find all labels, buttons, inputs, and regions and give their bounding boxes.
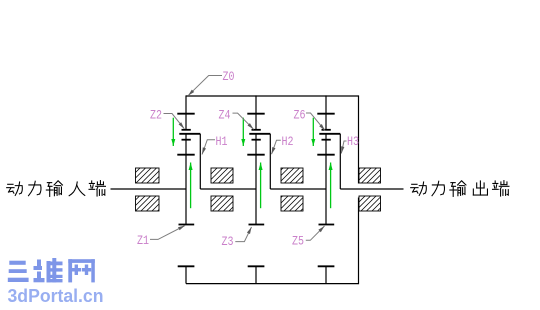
stage 3 sun shaft lower segment [325, 134, 327, 225]
bottom frame line [186, 283, 359, 285]
svg-text:Z2: Z2 [150, 108, 162, 123]
svg-text:H2: H2 [282, 134, 294, 149]
fixed gear stub stage 3 [325, 266, 327, 283]
leader line Z4 [233, 113, 254, 129]
planet gear line of carrier H1 [179, 133, 200, 135]
carrier H1 arm vertical [199, 134, 201, 189]
leader arrowhead Z6 [319, 124, 325, 131]
char ru [69, 182, 85, 196]
leader arrowhead H2 [272, 147, 276, 154]
leader arrowhead H3 [341, 146, 344, 153]
gear Z2 upper tick [177, 113, 194, 115]
leader arrowhead Z5 [318, 226, 324, 232]
bearing block B3 upper [281, 168, 303, 183]
leader line Z6 [306, 113, 325, 131]
bearing block B2 upper [211, 168, 233, 183]
logo char 网 [68, 259, 72, 282]
planet gear line of carrier H2 [249, 133, 270, 135]
fixed gear tick below stage 1 [178, 265, 195, 267]
bearing block B1 lower [136, 196, 160, 211]
leader arrowhead Z2 [179, 122, 185, 129]
leader line Z2 [164, 114, 185, 129]
bearing block B1 upper [136, 168, 160, 183]
leader line H3 [341, 141, 346, 154]
svg-text:Z1: Z1 [137, 233, 149, 248]
char li [29, 181, 42, 195]
logo char 维 [37, 260, 41, 267]
leader line Z0 [188, 76, 222, 96]
char shu [450, 181, 466, 196]
leader line H1 [202, 140, 215, 155]
svg-text:3dPortal.cn: 3dPortal.cn [8, 286, 104, 306]
carrier H2 arm vertical [269, 134, 271, 189]
stage 2 sun shaft lower segment [255, 134, 257, 225]
gear Z5 tick [319, 224, 335, 226]
green up arrow stage 1 [189, 163, 193, 209]
bearing block B4 lower [359, 196, 381, 211]
leader arrowhead H1 [202, 147, 206, 154]
stage 1 lower mesh tick [182, 139, 191, 141]
svg-text:H3: H3 [347, 134, 359, 149]
green down arrow stage 2 [241, 118, 245, 146]
fixed gear tick below stage 2 [248, 265, 265, 267]
carrier H3 arm vertical [339, 134, 341, 189]
leader arrowhead Z3 [247, 227, 252, 234]
gear Z6 upper tick [317, 113, 334, 115]
stage 3 sun shaft upper segment [325, 95, 327, 129]
svg-text:Z0: Z0 [223, 69, 235, 84]
right frame vertical upper segment [358, 95, 360, 183]
stage 2 sun shaft upper segment [255, 95, 257, 129]
char dong [7, 182, 23, 195]
leader arrowhead Z1 [178, 226, 185, 231]
char shu [46, 181, 62, 196]
char chu [473, 181, 487, 195]
leader line Z5 [306, 226, 325, 240]
leader line Z1 [150, 226, 185, 240]
input shaft line [111, 188, 187, 190]
svg-text:H1: H1 [216, 134, 228, 149]
ring gear Z0 top frame line [186, 95, 359, 97]
char li [432, 181, 445, 195]
gear Z4 upper tick [247, 113, 264, 115]
right frame vertical lower segment [358, 198, 360, 285]
shaft line stage1-stage2 [200, 188, 256, 190]
bearing block B2 lower [211, 196, 233, 211]
fixed gear stub stage 2 [255, 266, 257, 283]
bearing block B3 lower [281, 196, 303, 211]
planet gear line of carrier H3 [319, 133, 340, 135]
fixed gear stub stage 1 [185, 266, 187, 283]
gear Z6 mesh tick [322, 129, 331, 131]
stage 3 lower mesh tick [322, 139, 331, 141]
gear Z3 tick [249, 224, 265, 226]
stage 1 shaft gear tick [177, 154, 194, 156]
stage 3 shaft gear tick [317, 154, 334, 156]
shaft line stage2-stage3 [270, 188, 326, 190]
leader line H2 [272, 140, 281, 154]
stage 1 sun shaft upper segment [185, 95, 187, 129]
green up arrow stage 2 [259, 163, 263, 209]
leader arrowhead Z0 [188, 90, 194, 96]
leader line Z3 [235, 227, 251, 242]
stage 2 lower mesh tick [252, 139, 261, 141]
svg-text:Z3: Z3 [222, 234, 234, 249]
fixed gear tick below stage 3 [318, 265, 335, 267]
stage 1 sun shaft lower segment [185, 134, 187, 225]
svg-text:Z4: Z4 [219, 108, 231, 123]
gear Z4 mesh tick [252, 129, 261, 131]
stage 2 shaft gear tick [247, 154, 264, 156]
svg-text:Z5: Z5 [292, 234, 304, 249]
bearing block B4 upper [359, 168, 381, 183]
char duan [89, 181, 105, 196]
output shaft line [340, 188, 403, 190]
green up arrow stage 3 [329, 163, 333, 209]
green down arrow stage 3 [311, 118, 315, 146]
green down arrow stage 1 [171, 118, 175, 146]
char dong [411, 182, 427, 195]
gear Z2 mesh tick [182, 129, 191, 131]
leader arrowhead Z4 [248, 123, 254, 129]
logo char 三 [9, 261, 25, 265]
svg-text:Z6: Z6 [294, 108, 306, 123]
char duan [493, 181, 509, 196]
gear Z1 tick [179, 224, 195, 226]
